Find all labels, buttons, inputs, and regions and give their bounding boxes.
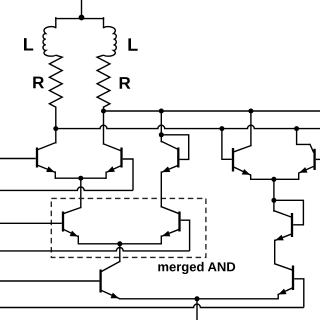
wire: Q3 base input from left edge <box>0 222 62 224</box>
wire: tail of upper pair down to Q3 collector <box>80 178 82 207</box>
node A: R1 / rail2 junction <box>53 126 58 131</box>
wire: Q1 collector up to node A <box>55 129 57 143</box>
wire: input line to Q2 base (from left edge, hops over tail) <box>0 187 133 190</box>
label R (left) <box>33 77 44 89</box>
resistor R1 (left load) <box>49 55 62 128</box>
transistor Q5 (current source, left) <box>101 262 120 299</box>
wire: Q6 base loop to bias rail <box>294 279 304 308</box>
wire: Q3 emitter corner <box>77 236 79 244</box>
label R (right) <box>120 77 131 89</box>
wire: Q10 emitter down to Q6 collector <box>274 240 276 263</box>
wire: Q9 base from right edge <box>316 158 320 160</box>
wire: output rail 1 (from R2 to right edge) <box>104 110 320 112</box>
wire: Q10 collector stub <box>273 200 275 211</box>
wire: Q5 base input from left edge <box>0 280 99 282</box>
wire: supply bar to both load branches <box>56 18 104 28</box>
transistor Q7 (diode-connected level shifter) <box>161 141 178 172</box>
node: rail1 / Q7 tap <box>159 109 164 114</box>
node: supply junction <box>79 15 85 21</box>
node: upper pair tail <box>78 176 83 181</box>
wire: Q2 base loop to input line <box>123 159 133 190</box>
node: rail1 / Q8 collector <box>248 109 253 114</box>
node: output pair tail <box>271 177 276 182</box>
wire: Q9 collector to rail2 <box>297 129 310 145</box>
wire: tail lead to bottom edge <box>196 299 198 320</box>
label L (right) <box>128 38 137 50</box>
wire: Q6 emitter corner <box>277 295 279 299</box>
wire: upper pair common emitter <box>55 177 106 179</box>
transistor Q6 (current source, right) <box>275 264 293 295</box>
resistor R2 (right load) <box>97 55 110 111</box>
wire: Q7 collector stub <box>160 135 162 142</box>
wire: Q1 emitter corner <box>54 172 56 178</box>
transistor Q8 (output pair, left) <box>233 146 251 175</box>
node: Q7 collector-base junction <box>159 132 164 137</box>
wire: Q7 emitter down to Q4 collector <box>160 172 162 207</box>
wire: Q10 base loop to collector node <box>274 200 304 225</box>
wire: output rail 2 (from R1 to right edge, hops over three verticals) <box>56 125 320 128</box>
transistor Q10 (diode-connected level shifter 2) <box>274 211 292 241</box>
inductor L2 (right load) <box>104 27 117 57</box>
wire: input line to Q4 base (from left edge, hops over lower tail) <box>0 248 190 251</box>
transistor Q9 (output pair, right) <box>299 144 315 172</box>
wire: Q4 emitter corner <box>160 236 162 244</box>
wire: Q9 emitter corner <box>274 173 299 180</box>
node: lower pair tail <box>117 241 122 246</box>
wire: Q7 base loop to collector node <box>161 135 188 160</box>
label: merged AND <box>158 262 235 274</box>
wire: rail1 down to diode Q7 <box>160 111 162 135</box>
transistor Q2 (upper pair, right) <box>104 144 122 172</box>
wire: Q4 base loop <box>181 220 190 251</box>
wire: Q8 base from rail2 <box>222 129 232 160</box>
dashed box: merged AND region <box>51 198 206 257</box>
wire: Q2 collector up to node B (crosses rail2 hop) <box>103 111 105 144</box>
wire: bias rail along bottom (from left edge, hops over tail lead) <box>0 304 304 307</box>
node: bottom tail junction <box>195 296 200 301</box>
wire: lower pair common emitter <box>78 243 161 245</box>
node: rail2 / Q8 base <box>219 126 224 131</box>
node: Q10 collector-base junction <box>271 198 276 203</box>
wire: Q8 collector up to rail1 (crosses rail2 hop) <box>250 111 252 146</box>
wire: supply lead from top edge <box>81 0 83 18</box>
wire: output pair tail down to diode Q10 <box>273 179 275 200</box>
wire: lower tail down to Q5 collector <box>119 244 121 262</box>
label L (left) <box>24 38 33 50</box>
node: rail2 / Q9 collector <box>294 126 299 131</box>
wire: Q1 base input from left edge <box>0 158 36 160</box>
transistor Q4 (merged AND pair, right) <box>161 207 179 237</box>
node B: R2 / rail1 junction <box>101 109 106 114</box>
inductor L1 (left load) <box>43 27 56 57</box>
wire: bottom common emitter line <box>119 298 278 300</box>
wire: Q2 emitter corner <box>105 172 107 178</box>
transistor Q1 (upper pair, left) <box>37 143 56 173</box>
wire: Q8 emitter corner <box>250 175 274 180</box>
transistor Q3 (merged AND pair, left) <box>63 208 81 237</box>
